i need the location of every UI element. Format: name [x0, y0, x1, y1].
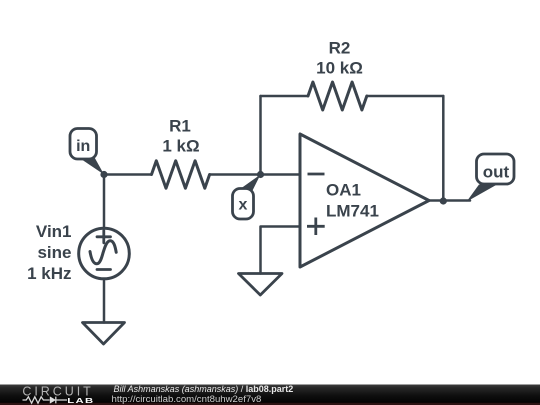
svg-text:Bill Ashmanskas (ashmanskas) /: Bill Ashmanskas (ashmanskas) / lab08.par… — [114, 384, 294, 394]
resistor R2 — [308, 82, 367, 110]
wire Vin1 negative terminal to ground — [103, 280, 106, 323]
op-amp OA1 triangle body — [300, 134, 429, 267]
svg-text:LM741: LM741 — [326, 202, 379, 221]
wire op-amp output to node out — [429, 199, 470, 202]
junction dot at output node — [440, 197, 447, 204]
svg-text:out: out — [483, 162, 510, 181]
wire op-amp non-inverting input to ground — [261, 227, 301, 274]
wire feedback top-left segment to R2 left terminal — [261, 95, 309, 98]
ground (op-amp non-inverting input) — [239, 274, 283, 296]
voltage source Vin1 circle body — [79, 228, 130, 279]
wire feedback down to output node — [442, 96, 445, 201]
wire node x up to feedback branch — [259, 96, 262, 175]
op-amp inverting input minus mark — [308, 173, 325, 176]
Vin1 sine waveform mark — [90, 241, 116, 264]
junction dot at node in — [100, 171, 107, 178]
resistor R1 — [152, 161, 210, 188]
svg-text:1 kHz: 1 kHz — [27, 264, 71, 283]
Vin1 minus polarity mark — [97, 268, 111, 271]
node out (named net flag) — [467, 154, 515, 202]
CircuitLab logo — [22, 384, 94, 405]
svg-text:Vin1: Vin1 — [36, 222, 72, 241]
node in (named net flag) — [70, 129, 104, 175]
svg-text:1 kΩ: 1 kΩ — [162, 137, 199, 156]
svg-text:LAB: LAB — [67, 397, 94, 405]
svg-text:sine: sine — [37, 243, 71, 262]
svg-text:x: x — [239, 197, 248, 214]
wire R2 right terminal top-right segment — [367, 95, 444, 98]
op-amp non-inverting input plus mark — [307, 218, 325, 236]
svg-text:R2: R2 — [329, 39, 351, 58]
wire node in down to Vin1 positive terminal — [103, 175, 106, 228]
ground (below source Vin1) — [83, 323, 125, 345]
svg-text:R1: R1 — [169, 117, 191, 136]
svg-text:http://circuitlab.com/cnt8uhw2: http://circuitlab.com/cnt8uhw2ef7v8 — [112, 394, 262, 405]
svg-text:in: in — [76, 138, 90, 155]
wire R1 right terminal to op-amp inverting input — [210, 173, 300, 176]
svg-text:10 kΩ: 10 kΩ — [316, 59, 363, 78]
svg-text:OA1: OA1 — [326, 181, 361, 200]
node x (named net flag) — [233, 175, 261, 220]
junction dot at node x — [257, 171, 264, 178]
Vin1 plus polarity mark — [97, 231, 111, 243]
wire node in to R1 left terminal — [104, 173, 152, 176]
